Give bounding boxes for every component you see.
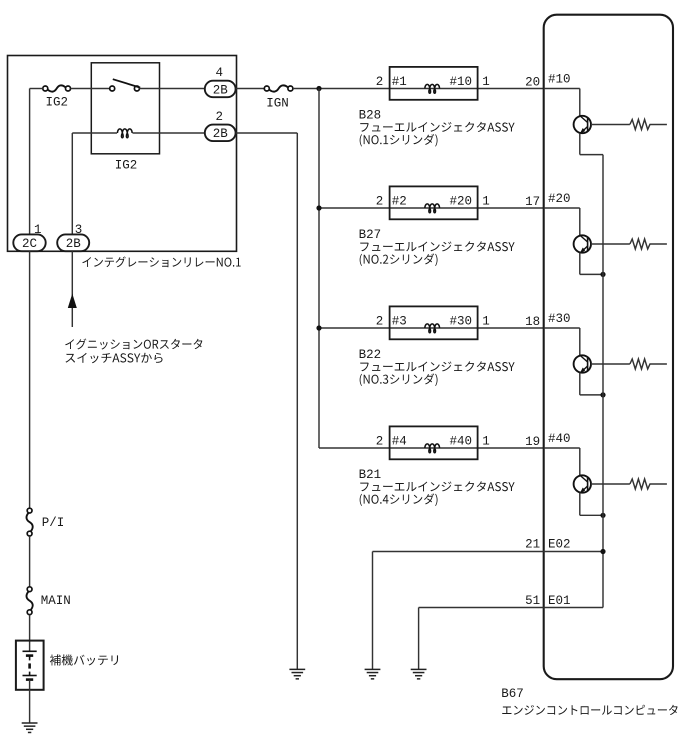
svg-text:2B: 2B xyxy=(213,127,229,141)
battery label 補機バッテリ xyxy=(50,654,118,665)
wire: coil row left to terminal 3 column xyxy=(72,133,117,234)
svg-text:P/I: P/I xyxy=(42,516,65,530)
wire E01 xyxy=(419,608,603,670)
terminal 1 oval 2C xyxy=(13,234,45,251)
ground (relay coil return) xyxy=(289,668,305,670)
transistor Q2 xyxy=(544,208,603,274)
svg-text:#30: #30 xyxy=(548,312,571,326)
wire: fuse IG2 to switch contact xyxy=(71,88,110,90)
svg-text:1: 1 xyxy=(482,195,490,209)
svg-text:1: 1 xyxy=(34,223,42,237)
wire E02 xyxy=(373,552,604,670)
svg-text:1: 1 xyxy=(482,435,490,449)
relay switch contacts xyxy=(110,86,140,91)
svg-text:51: 51 xyxy=(525,594,540,608)
wire: fuse IG2 left to terminal 1 column xyxy=(30,89,43,235)
fuse IGN xyxy=(264,86,269,91)
wire: MAIN to battery xyxy=(29,615,31,651)
wire: feeder vertical xyxy=(318,89,320,449)
fuse MAIN xyxy=(27,587,32,592)
svg-text:2B: 2B xyxy=(213,83,229,97)
wire: fuse IGN to ECU pin 20 xyxy=(293,88,544,90)
node: feeder junction row2 xyxy=(316,205,321,210)
ground E01 xyxy=(411,668,427,670)
terminal 2 oval 2B xyxy=(205,125,236,142)
injector B27 box xyxy=(390,186,478,219)
wire: switch to terminal 4 xyxy=(139,88,204,90)
wire: coil to terminal 2 xyxy=(133,132,205,134)
arrow head (from ignition OR starter switch) xyxy=(68,294,77,309)
svg-text:2C: 2C xyxy=(22,237,37,251)
wire: battery to ground xyxy=(29,680,31,723)
injector B22 box xyxy=(390,306,478,339)
injector B22 name フューエルインジェクタASSY xyxy=(360,361,514,371)
svg-text:#1: #1 xyxy=(392,75,407,89)
svg-text:#20: #20 xyxy=(548,192,571,206)
injector B21 coil xyxy=(425,444,440,453)
svg-text:3: 3 xyxy=(75,223,83,237)
svg-text:IG2: IG2 xyxy=(45,96,68,110)
injector B21 box xyxy=(390,426,478,459)
svg-text:2: 2 xyxy=(376,75,384,89)
transistor Q3 xyxy=(544,328,603,395)
injector B28 name フューエルインジェクタASSY xyxy=(360,122,514,132)
wire: P/I to MAIN xyxy=(29,536,31,587)
integration relay NO.1 outer box xyxy=(8,56,237,252)
resistor R4 xyxy=(591,479,667,489)
svg-text:E02: E02 xyxy=(548,538,571,552)
transistor Q1 xyxy=(544,89,603,155)
svg-text:2: 2 xyxy=(376,315,384,329)
svg-text:#40: #40 xyxy=(548,432,571,446)
injector B22 coil xyxy=(425,324,440,333)
svg-text:E01: E01 xyxy=(548,594,571,608)
wire: row 3 to ECU xyxy=(319,327,544,329)
svg-text:2B: 2B xyxy=(66,237,82,251)
svg-text:4: 4 xyxy=(216,66,224,80)
node: emitter bus junction row3 xyxy=(600,392,605,397)
resistor R2 xyxy=(591,239,667,249)
resistor R1 xyxy=(591,120,667,130)
wire: row 4 to ECU xyxy=(319,447,544,449)
relay inner box IG2 xyxy=(91,63,159,154)
svg-text:1: 1 xyxy=(482,315,490,329)
svg-text:IGN: IGN xyxy=(266,96,289,110)
injector B27 cylinder note (NO.2シリンダ) xyxy=(360,253,438,266)
svg-text:#3: #3 xyxy=(392,315,407,329)
node: E02 junction xyxy=(600,549,605,554)
injector B28 coil xyxy=(425,84,440,93)
node: feeder junction row1 xyxy=(316,86,321,91)
note text スイッチASSYから xyxy=(66,353,163,363)
wire: terminal 4 to fuse IGN xyxy=(236,88,265,90)
relay label インテグレーションリレーNO.1 xyxy=(82,256,240,267)
transistor Q4 xyxy=(544,448,603,515)
svg-text:B21: B21 xyxy=(359,468,382,482)
wire: terminal 2 to ground drop xyxy=(236,133,298,669)
svg-text:#10: #10 xyxy=(548,72,571,86)
battery box xyxy=(16,641,44,690)
relay switch blade xyxy=(113,79,140,87)
svg-text:B67: B67 xyxy=(501,687,524,701)
wire: row 2 to ECU xyxy=(319,207,544,209)
svg-text:18: 18 xyxy=(525,315,540,329)
injector B28 cylinder note (NO.1シリンダ) xyxy=(360,134,438,147)
battery cells xyxy=(23,651,37,679)
note text イグニッションORスタータ xyxy=(65,339,202,350)
ground battery xyxy=(22,722,38,724)
terminal 3 oval 2B xyxy=(57,234,89,251)
svg-text:1: 1 xyxy=(482,75,490,89)
wire: terminal 1 down to fuse P/I xyxy=(29,251,31,508)
injector B21 cylinder note (NO.4シリンダ) xyxy=(360,493,438,506)
svg-text:B22: B22 xyxy=(359,348,382,362)
svg-text:19: 19 xyxy=(525,435,540,449)
node: emitter bus junction row2 xyxy=(600,272,605,277)
svg-text:B27: B27 xyxy=(359,228,382,242)
svg-text:#40: #40 xyxy=(449,435,472,449)
injector B27 coil xyxy=(425,204,440,213)
svg-text:#2: #2 xyxy=(392,195,407,209)
svg-text:2: 2 xyxy=(216,110,224,124)
injector B28 box xyxy=(390,67,478,100)
svg-text:20: 20 xyxy=(525,75,540,89)
fuse P/I xyxy=(27,508,32,513)
svg-text:B28: B28 xyxy=(359,109,382,123)
svg-text:#10: #10 xyxy=(449,75,472,89)
injector B21 name フューエルインジェクタASSY xyxy=(360,481,514,491)
ECU name エンジンコントロールコンピュータ xyxy=(502,705,677,715)
ground E02 xyxy=(365,668,381,670)
relay coil IG2 xyxy=(117,129,132,138)
resistor R3 xyxy=(591,359,667,369)
svg-text:MAIN: MAIN xyxy=(41,594,71,608)
ECU B67 box xyxy=(544,15,673,680)
emitter bus wire xyxy=(602,155,604,608)
node: feeder junction row3 xyxy=(316,325,321,330)
svg-text:2: 2 xyxy=(376,435,384,449)
node: emitter bus junction row4 xyxy=(600,513,605,518)
terminal 4 oval 2B xyxy=(205,81,236,98)
svg-text:IG2: IG2 xyxy=(115,159,138,173)
fuse IG2 xyxy=(43,86,48,91)
svg-text:#20: #20 xyxy=(449,195,472,209)
svg-text:#30: #30 xyxy=(449,315,472,329)
svg-text:21: 21 xyxy=(525,538,540,552)
svg-text:#4: #4 xyxy=(392,435,407,449)
svg-text:2: 2 xyxy=(376,195,384,209)
injector B27 name フューエルインジェクタASSY xyxy=(360,241,514,251)
wire: terminal 3 down with arrow from ignition xyxy=(71,251,73,327)
svg-text:17: 17 xyxy=(525,195,540,209)
injector B22 cylinder note (NO.3シリンダ) xyxy=(360,373,438,386)
